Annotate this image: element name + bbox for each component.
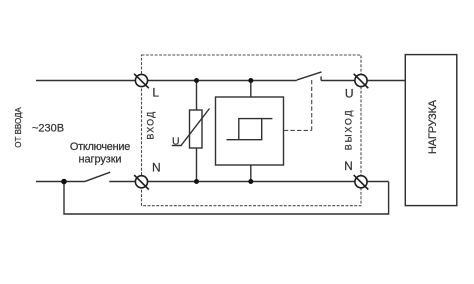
relay K1 voltage-monitor body: [216, 97, 284, 165]
svg-text:нагрузки: нагрузки: [79, 154, 122, 166]
svg-text:U: U: [345, 86, 354, 100]
wire relay branch upper: [250, 81, 252, 98]
switch K1.1 relay contact blade: [297, 72, 322, 80]
junction dot L varistor: [194, 78, 199, 83]
relay K1 hysteresis symbol: [227, 119, 262, 140]
label Отключение нагрузки: [70, 141, 130, 166]
svg-text:~230В: ~230В: [32, 122, 64, 134]
wire L bus: input terminal to relay switch contact: [148, 80, 297, 82]
varistor RU1 diagonal stroke with foot: [172, 109, 210, 146]
svg-text:N: N: [344, 159, 353, 173]
wire N bus: input terminal to output terminal: [148, 181, 355, 183]
switch S1 disconnect blade (Отключение нагрузки): [85, 172, 110, 181]
dashed enclosure (device boundary): [142, 55, 362, 206]
svg-text:ВЫХОД: ВЫХОД: [344, 109, 354, 151]
wire N return path (bypass): [64, 182, 389, 215]
junction dot N bypass: [61, 179, 67, 185]
wire L bus: switch to output terminal: [321, 80, 355, 82]
switch K1.1 fixed contact tick: [320, 76, 322, 80]
junction dot N varistor: [194, 179, 199, 184]
svg-text:Отключение: Отключение: [70, 141, 130, 153]
dashed control link relay to contact: horizontal run: [284, 129, 312, 131]
terminal N input (circle with slash): [134, 175, 149, 189]
svg-text:НАГРУЗКА: НАГРУЗКА: [427, 99, 439, 154]
load box НАГРУЗКА: [405, 55, 457, 206]
wire N bus: disconnect switch to input terminal: [109, 181, 135, 183]
svg-text:U: U: [172, 136, 180, 148]
wire varistor branch lower: [196, 148, 198, 182]
wire L bus: mains to input terminal: [36, 80, 135, 82]
wire relay branch lower: [250, 165, 252, 182]
svg-text:ОТ ВВОДА: ОТ ВВОДА: [14, 107, 23, 148]
relay K1 hysteresis symbol top extension: [262, 118, 273, 120]
wire N bus: output terminal to corner: [367, 181, 388, 183]
svg-text:L: L: [152, 86, 159, 100]
wire L bus: output terminal to load: [367, 80, 405, 82]
dashed control link relay to contact: vertical run: [311, 80, 313, 130]
terminal U output (circle with slash): [354, 74, 369, 88]
junction dot N relay: [248, 179, 253, 184]
terminal N output (circle with slash): [354, 175, 369, 189]
junction dot L relay: [248, 78, 253, 83]
svg-text:N: N: [152, 161, 161, 175]
svg-text:ВХОД: ВХОД: [146, 111, 156, 140]
wire varistor branch upper: [196, 81, 198, 111]
terminal L input (circle with slash): [134, 74, 149, 88]
wire N bus: mains to disconnect switch: [36, 181, 85, 183]
varistor RU1 body: [190, 110, 203, 148]
